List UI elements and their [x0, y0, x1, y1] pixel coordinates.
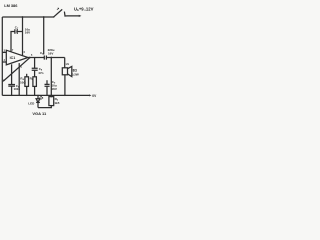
LED D1	[37, 95, 39, 98]
svg-text:6: 6	[24, 52, 26, 54]
capacitor C5 100n	[11, 64, 13, 84]
svg-text:0V: 0V	[92, 94, 97, 98]
ground arrow head	[89, 94, 92, 96]
resistor R6 box	[49, 97, 54, 106]
svg-text:LM 386: LM 386	[4, 3, 18, 8]
capacitor C9 bypass	[46, 80, 48, 95]
wire feedback diagonal with arrow	[3, 58, 30, 81]
node junction dot pin6 col	[22, 16, 24, 18]
node output junction	[29, 57, 31, 59]
wire LED/R6 feed	[50, 58, 52, 98]
switch contact + wire to supply arrow	[64, 12, 79, 16]
svg-text:16V: 16V	[52, 87, 57, 91]
capacitor C8 (zobel)	[34, 58, 36, 69]
svg-text:C7: C7	[15, 25, 19, 30]
resistor R5 (zobel) box	[33, 77, 37, 87]
capacitor C6 output 220u	[44, 56, 46, 60]
svg-text:Ub+9..12V: Ub+9..12V	[74, 6, 94, 12]
wire pin6 supply drop	[22, 17, 24, 56]
wire C6 supply drop	[43, 17, 45, 55]
svg-text:LED: LED	[28, 102, 35, 106]
svg-text:7: 7	[12, 50, 14, 52]
loudspeaker LS	[64, 58, 66, 68]
wire +input	[2, 51, 6, 53]
rail junction dots	[11, 95, 12, 96]
svg-text:LS: LS	[66, 62, 70, 66]
svg-text:0,2W: 0,2W	[72, 73, 79, 77]
svg-text:10Ω: 10Ω	[20, 81, 26, 85]
node junction dot C6 col	[43, 16, 45, 18]
capacitor C7 (pin7 bypass)	[11, 32, 15, 53]
svg-text:47n: 47n	[38, 71, 43, 75]
svg-text:1k5: 1k5	[54, 101, 59, 105]
wire left vertical rail	[1, 17, 3, 95]
svg-text:16V: 16V	[48, 51, 53, 55]
switch S1	[53, 16, 54, 17]
wire output pin5	[28, 57, 44, 59]
resistor R4 box	[25, 77, 29, 87]
wire pin4 ground	[18, 63, 20, 95]
svg-text:IC1: IC1	[10, 56, 16, 60]
svg-text:VGA 11: VGA 11	[32, 111, 47, 116]
supply arrow head	[79, 15, 82, 17]
node speaker tap junction	[50, 57, 52, 59]
op-amp IC1 triangle	[6, 50, 28, 65]
svg-text:5: 5	[31, 55, 33, 57]
wire bottom ground rail	[2, 94, 89, 96]
wire top supply rail	[2, 16, 53, 18]
wire -input	[2, 61, 6, 63]
svg-text:16V: 16V	[25, 31, 30, 35]
